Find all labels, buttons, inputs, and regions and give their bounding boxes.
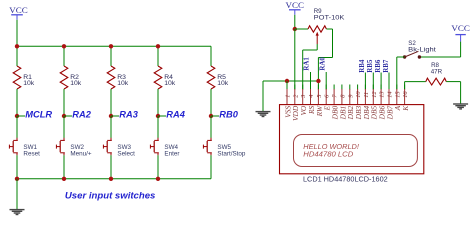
- wire VSS pin drop: [286, 81, 288, 90]
- node RA3: [109, 114, 113, 118]
- ground (backlight): [453, 103, 468, 105]
- wire ground rail (VSS/RW): [263, 80, 318, 82]
- wire top bus drop column 4: [157, 46, 159, 66]
- node RB0: [209, 114, 213, 118]
- wire switch SW3 to bottom bus: [110, 155, 112, 179]
- wire node to switch SW4: [157, 116, 159, 138]
- svg-text:RA4: RA4: [166, 110, 185, 120]
- junction top bus x=111: [109, 44, 113, 48]
- wire R3 to node: [110, 89, 112, 116]
- svg-text:VCC: VCC: [9, 5, 28, 15]
- wire R5 to node: [210, 89, 212, 116]
- resistor R2: [60, 66, 68, 89]
- wire top bus drop column 5: [210, 46, 212, 66]
- svg-text:HELLO WORLD!: HELLO WORLD!: [303, 144, 359, 151]
- net label RB6 / wire DB6: [380, 73, 382, 90]
- wire top bus drop column 1: [16, 46, 18, 66]
- svg-text:10k: 10k: [217, 80, 229, 87]
- svg-text:RB0: RB0: [219, 110, 238, 120]
- LCD module LCD1 pins: [286, 85, 288, 90]
- svg-text:RA0: RA0: [319, 57, 326, 71]
- junction top bus x=158: [156, 44, 160, 48]
- svg-text:Reset: Reset: [23, 150, 40, 157]
- svg-text:14: 14: [387, 91, 394, 98]
- wire node to switch SW1: [16, 116, 18, 138]
- net label RB4 / wire DB4: [364, 73, 366, 90]
- node RA2: [62, 114, 66, 118]
- svg-text:10: 10: [355, 91, 362, 98]
- svg-text:6: 6: [324, 94, 331, 98]
- svg-text:10k: 10k: [117, 80, 129, 87]
- wire pin K to resistor R8: [404, 82, 406, 90]
- switch SW3: [110, 138, 112, 141]
- wire switch SW5 to bottom bus: [210, 155, 212, 179]
- LCD module LCD1 body: [280, 105, 424, 174]
- switch SW2: [63, 138, 65, 141]
- svg-text:POT-10K: POT-10K: [314, 14, 346, 21]
- resistor R1: [13, 66, 21, 89]
- svg-text:VCC: VCC: [286, 0, 305, 10]
- wire R1 to node: [16, 89, 18, 116]
- wire bottom bus: [17, 178, 211, 180]
- svg-text:Bk-Light: Bk-Light: [408, 46, 436, 53]
- junction VSS: [285, 79, 289, 83]
- junction RW rail end: [316, 79, 320, 83]
- wire R8 to ground: [446, 81, 460, 83]
- resistor R8 47R: [426, 78, 447, 85]
- node MCLR: [15, 114, 19, 118]
- wire R4 to node: [157, 89, 159, 116]
- svg-text:4: 4: [308, 94, 315, 98]
- svg-text:MCLR: MCLR: [25, 110, 52, 120]
- svg-text:Select: Select: [117, 150, 135, 157]
- svg-text:10k: 10k: [70, 80, 82, 87]
- wire switch SW4 to bottom bus: [157, 155, 159, 179]
- node RA4: [156, 114, 160, 118]
- svg-text:VCC: VCC: [451, 23, 470, 33]
- switch SW4: [157, 138, 159, 141]
- svg-text:10k: 10k: [164, 80, 176, 87]
- resistor R4: [154, 66, 162, 89]
- svg-text:K: K: [401, 105, 410, 112]
- wire switch SW1 to bottom bus: [16, 155, 18, 179]
- svg-text:16: 16: [402, 91, 409, 98]
- svg-text:RB5: RB5: [367, 59, 374, 73]
- switch SW5: [210, 138, 212, 141]
- svg-text:LCD1 HD44780LCD-1602: LCD1 HD44780LCD-1602: [303, 174, 388, 183]
- svg-text:13: 13: [379, 91, 386, 97]
- svg-text:9: 9: [347, 94, 354, 98]
- wire VDD net down to pin 2: [294, 29, 296, 90]
- junction top bus x=17: [15, 44, 19, 48]
- svg-text:2: 2: [292, 94, 299, 98]
- junction top bus x=64: [62, 44, 66, 48]
- wire top bus drop column 2: [63, 46, 65, 66]
- wire VCC to pot junction: [294, 15, 296, 29]
- svg-text:RA2: RA2: [72, 110, 91, 120]
- svg-text:7: 7: [332, 94, 339, 98]
- junction pot/VDD: [293, 27, 297, 31]
- svg-text:RA3: RA3: [119, 110, 138, 120]
- potentiometer R9 POT-10K: [295, 28, 308, 30]
- svg-text:47R: 47R: [431, 69, 443, 76]
- wire VCC to top bus: [16, 20, 18, 47]
- wire rail to ground (LCD): [262, 81, 264, 111]
- wire node to switch SW5: [210, 116, 212, 138]
- svg-text:RA1: RA1: [304, 57, 311, 71]
- resistor R5: [207, 66, 215, 89]
- wire node to switch SW2: [63, 116, 65, 138]
- junction bottom bus x=158: [156, 177, 160, 181]
- ground (left): [10, 209, 25, 211]
- svg-text:RB6: RB6: [375, 59, 382, 73]
- svg-text:RB4: RB4: [359, 59, 366, 73]
- svg-text:8: 8: [339, 94, 346, 98]
- svg-text:RB7: RB7: [383, 59, 390, 73]
- wire VCC to switch S2: [460, 42, 462, 57]
- wire node to switch SW3: [110, 116, 112, 138]
- LCD screen: [294, 135, 418, 167]
- junction bottom bus x=64: [62, 177, 66, 181]
- wire bottom bus to ground: [16, 179, 18, 210]
- ground (LCD): [256, 111, 271, 113]
- svg-text:15: 15: [394, 91, 401, 97]
- wire R2 to node: [63, 89, 65, 116]
- switch S2 Bk-Light: [403, 55, 406, 58]
- svg-text:11: 11: [363, 92, 370, 98]
- wire pot right terminal to RW/ground net: [326, 28, 332, 30]
- svg-text:User input switches: User input switches: [65, 191, 155, 201]
- svg-text:Menu/+: Menu/+: [70, 150, 92, 157]
- svg-text:10k: 10k: [23, 80, 35, 87]
- wire top bus drop column 3: [110, 46, 112, 66]
- switch SW1: [16, 138, 18, 141]
- junction bottom bus x=17: [15, 177, 19, 181]
- net label RA1 / wire RS: [310, 72, 312, 90]
- junction bottom bus x=111: [109, 177, 113, 181]
- svg-text:Start/Stop: Start/Stop: [217, 150, 245, 157]
- svg-text:5: 5: [316, 95, 323, 98]
- wire switch SW2 to bottom bus: [63, 155, 65, 179]
- wire top bus: [17, 45, 211, 47]
- net label RB7 / wire DB7: [388, 73, 390, 90]
- svg-text:HD44780 LCD: HD44780 LCD: [303, 151, 353, 158]
- svg-text:Enter: Enter: [164, 150, 179, 157]
- net label RB5 / wire DB5: [372, 73, 374, 90]
- svg-text:3: 3: [300, 95, 307, 99]
- net label RA0 / wire E: [325, 72, 327, 90]
- svg-text:12: 12: [371, 91, 378, 98]
- resistor R3: [107, 66, 115, 89]
- wire pot wiper to VO: [316, 44, 318, 50]
- svg-text:1: 1: [285, 95, 292, 98]
- wire S2 to pin A: [397, 56, 405, 58]
